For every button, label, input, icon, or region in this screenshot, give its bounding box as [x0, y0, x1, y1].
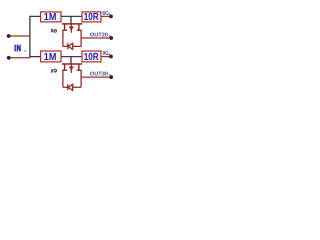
- svg-text:OUT20: OUT20: [90, 33, 108, 39]
- wire OUT20: [81, 37, 110, 39]
- tube X9 left outer leg: [62, 70, 64, 87]
- pin label 9G period: [109, 54, 110, 55]
- resistor R4 10R (bottom): [82, 51, 101, 63]
- node IN pin dot lower: [7, 56, 11, 60]
- tube X6 left element: [62, 24, 67, 30]
- pin label 6G period: [109, 14, 110, 15]
- tube X6 right outer leg: [80, 30, 82, 46]
- svg-text:9G: 9G: [103, 50, 110, 57]
- wire 10R to pin (top): [101, 15, 110, 17]
- diode D1 inline (X6 bottom): [68, 43, 73, 49]
- wire 10R to pin (bottom): [101, 56, 110, 58]
- net label OUT20 period: [109, 35, 110, 36]
- node pin dot bottom right: [109, 55, 113, 59]
- wire IN trunk with corners (black): [30, 16, 41, 57]
- resistor R3 1M (bottom): [41, 51, 61, 63]
- net label OUT30 period: [109, 74, 110, 75]
- node IN label period: [25, 50, 26, 51]
- svg-text:OUT30: OUT30: [90, 72, 108, 78]
- tube X9 center line: [70, 64, 72, 73]
- tube X6 center line: [70, 24, 72, 33]
- node pin dot top right: [109, 15, 113, 19]
- node pin dot OUT30: [109, 75, 113, 79]
- tube X9 top rail (red): [62, 63, 82, 65]
- tube X9 right element: [77, 64, 82, 70]
- svg-text:6G: 6G: [103, 10, 110, 17]
- svg-text:1M: 1M: [44, 12, 57, 23]
- resistor R2 10R (top): [82, 12, 101, 23]
- tube X6 right element: [77, 24, 82, 30]
- wire IN stub upper: [10, 35, 30, 37]
- tube X9 bottom wire: [63, 86, 81, 88]
- tube X6 top rail (red): [62, 23, 82, 25]
- tube X6 left outer leg: [62, 30, 64, 46]
- background: [0, 0, 122, 101]
- resistor R1 1M (top): [41, 12, 61, 23]
- wire 1M to 10R (bottom, dark pin line): [61, 56, 82, 58]
- wire 1M to 10R (top, dark pin line): [61, 15, 82, 17]
- tube X9 right outer leg: [80, 70, 82, 87]
- tube X9 plate pin (black stub): [70, 57, 72, 64]
- svg-text:10R: 10R: [84, 52, 100, 63]
- node IN label: [15, 45, 20, 52]
- tube X9 center triangle: [69, 67, 74, 71]
- diode D2 inline (X9 bottom): [68, 84, 73, 90]
- tube X6 bottom wire: [63, 45, 81, 47]
- svg-text:1M: 1M: [44, 52, 57, 63]
- name label X9: [51, 69, 57, 73]
- tube X6 center triangle: [69, 26, 74, 30]
- node IN pin dot upper: [7, 34, 11, 38]
- tube X6 plate pin (black stub): [70, 16, 72, 24]
- name label X6: [51, 29, 57, 33]
- node pin dot OUT20: [109, 36, 113, 40]
- wire IN stub lower: [10, 57, 30, 59]
- tube X9 left element: [62, 64, 67, 70]
- wire OUT30: [81, 76, 110, 78]
- svg-text:10R: 10R: [84, 12, 100, 23]
